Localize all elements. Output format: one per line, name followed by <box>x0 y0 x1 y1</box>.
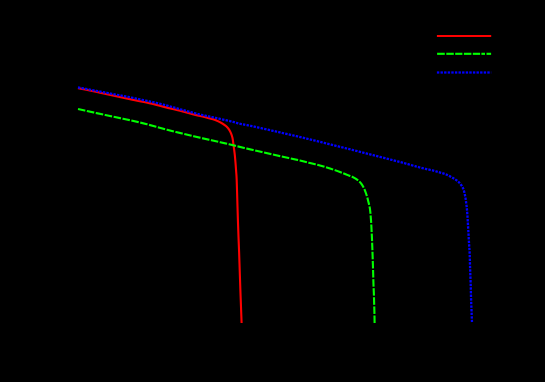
green curve (dashed) <box>78 109 375 323</box>
red curve (solid) <box>78 88 242 323</box>
legend red sample <box>437 35 491 37</box>
legend green sample <box>437 53 491 55</box>
legend blue sample <box>437 71 491 73</box>
blue curve (dotted) <box>78 87 472 322</box>
